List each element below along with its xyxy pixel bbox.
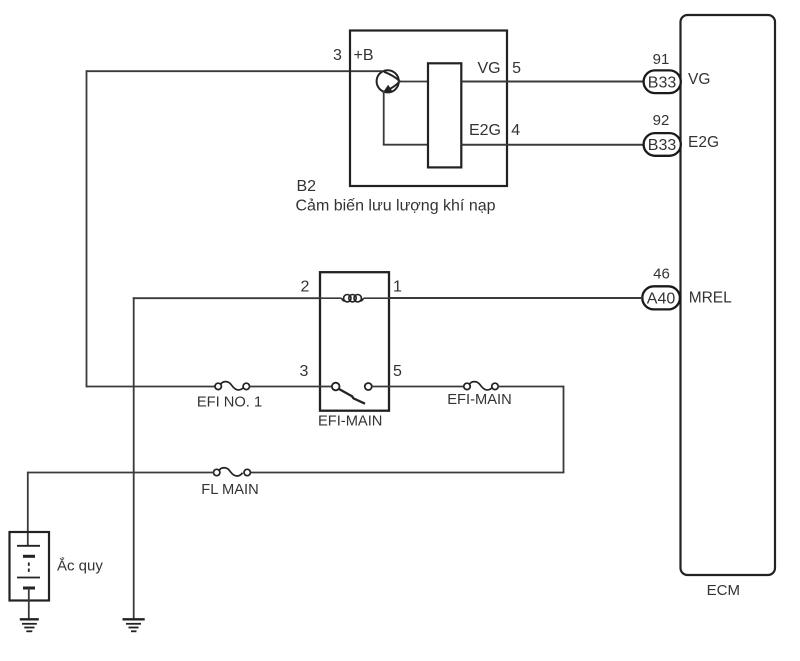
svg-text:E2G: E2G — [688, 134, 719, 151]
wire relay pin 5 to fuse EFI-MAIN — [389, 386, 464, 388]
connector B33 pin 92 — [644, 133, 681, 156]
svg-text:3: 3 — [333, 47, 342, 64]
svg-text:5: 5 — [393, 363, 402, 380]
wire E2G to ECM B33 — [461, 144, 644, 146]
svg-text:MREL: MREL — [689, 290, 732, 307]
svg-text:B2: B2 — [297, 178, 317, 195]
svg-text:FL MAIN: FL MAIN — [201, 482, 258, 498]
relay switch — [320, 383, 389, 404]
relay coil — [320, 295, 389, 302]
ECM box — [681, 15, 776, 575]
wire FL MAIN to battery — [28, 472, 214, 546]
wire from node to fuse EFI NO.1 — [87, 386, 216, 388]
relay box EFI-MAIN — [320, 272, 389, 411]
svg-text:EFI NO. 1: EFI NO. 1 — [197, 394, 262, 410]
fuse EFI NO. 1 — [215, 382, 250, 390]
svg-text:+B: +B — [353, 47, 373, 64]
svg-text:4: 4 — [511, 122, 520, 139]
svg-text:B33: B33 — [648, 75, 677, 92]
sensor box B2 — [350, 31, 507, 187]
wire relay pin 2 from node — [133, 297, 320, 619]
wire fuse EFI-MAIN down to FL MAIN line — [251, 386, 565, 473]
wire fuse EFI NO.1 to relay pin 3 — [250, 386, 321, 388]
fuse FL MAIN — [214, 468, 251, 476]
svg-text:ECM: ECM — [707, 582, 740, 599]
fuse EFI-MAIN — [464, 382, 498, 390]
wire VG to ECM B33 — [461, 81, 644, 83]
resistor element (measuring resistor rectangle) — [428, 63, 461, 167]
svg-text:46: 46 — [653, 266, 670, 283]
svg-text:EFI-MAIN: EFI-MAIN — [447, 392, 511, 408]
svg-text:92: 92 — [653, 112, 670, 129]
svg-text:VG: VG — [477, 60, 500, 77]
wire relay pin 1 to A40 — [389, 297, 642, 299]
wire collector to resistor — [398, 81, 428, 83]
svg-text:EFI-MAIN: EFI-MAIN — [318, 413, 382, 429]
svg-text:91: 91 — [653, 51, 670, 68]
svg-text:B33: B33 — [648, 137, 677, 154]
svg-text:VG: VG — [688, 71, 710, 88]
svg-text:1: 1 — [393, 279, 402, 296]
svg-text:A40: A40 — [647, 291, 676, 308]
battery box — [10, 532, 50, 601]
connector A40 pin 46 — [642, 286, 680, 309]
svg-text:E2G: E2G — [469, 122, 501, 139]
svg-text:5: 5 — [512, 60, 521, 77]
battery cells — [17, 546, 40, 620]
svg-text:3: 3 — [300, 363, 309, 380]
transistor (MAF sensor element) — [377, 70, 400, 93]
wire +B from node to sensor pin 3 — [87, 70, 383, 387]
svg-text:Cảm biến lưu lượng khí nạp: Cảm biến lưu lượng khí nạp — [296, 198, 496, 215]
ground (relay coil) — [123, 619, 145, 631]
svg-text:2: 2 — [301, 279, 310, 296]
connector B33 pin 91 — [644, 70, 681, 93]
wire emitter down and right to resistor — [383, 91, 428, 145]
svg-text:Ắc quy: Ắc quy — [57, 557, 103, 575]
ground (battery) — [20, 619, 39, 631]
